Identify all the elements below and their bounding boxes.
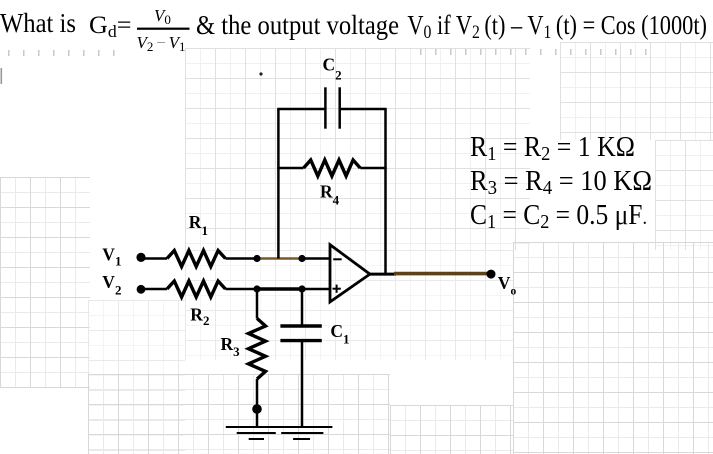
svg-text:R2: R2 (190, 305, 209, 329)
resistor R1 (167, 251, 225, 267)
svg-text:V0: V0 (154, 6, 171, 27)
op-amp U1 triangle (330, 245, 370, 302)
wire node C down to R3 (256, 289, 259, 318)
capacitor C2 left plate (324, 87, 327, 128)
wire node D to op-amp plus input (302, 288, 330, 291)
capacitor C1 bottom plate (280, 339, 321, 342)
svg-text:& the output voltage: & the output voltage (196, 10, 399, 40)
wire node A to node B (brown) (257, 257, 302, 260)
svg-text:C2: C2 (323, 55, 342, 83)
wire R2 to node C (225, 288, 257, 291)
svg-text:Vo: Vo (498, 273, 517, 298)
node D dot (298, 285, 305, 292)
svg-text:R1 = R2 = 1 KΩ: R1 = R2 = 1 KΩ (470, 132, 635, 165)
ground bar 3 left (249, 438, 264, 440)
ground bar 3 right (293, 438, 310, 440)
wire output to Vo terminal (brown) (394, 272, 491, 276)
svg-text:What is: What is (0, 8, 76, 38)
wire op-amp output (370, 273, 396, 276)
op-amp minus sign (333, 258, 342, 260)
capacitor C2 right plate (338, 87, 341, 128)
feedback left vertical wire (277, 109, 280, 259)
feedback right vertical wire (384, 109, 387, 274)
wire V2 input to R2 (141, 288, 167, 291)
op-amp plus sign (333, 288, 341, 290)
ground top bar (226, 426, 333, 428)
svg-text:R4: R4 (320, 181, 340, 207)
wire R3 to ground node (256, 379, 259, 427)
Vo terminal dot (487, 270, 496, 279)
resistor R3 (249, 318, 266, 379)
wire R4 branch right (360, 167, 387, 170)
resistor R2 (167, 281, 225, 297)
wire C2 to top branch right (340, 108, 387, 111)
svg-text:V1: V1 (102, 245, 121, 269)
svg-text:R1: R1 (189, 212, 208, 238)
terminal V2 dot (137, 285, 146, 294)
wire R1 to node A (225, 257, 257, 260)
wire R4 branch left (277, 167, 303, 170)
R3 ground node dot (252, 404, 262, 414)
wire C1 to ground (301, 341, 304, 427)
node A dot (253, 255, 260, 262)
wire top branch left to C2 (277, 108, 325, 111)
wire V1 input to R1 (141, 257, 167, 260)
node B dot (298, 255, 305, 262)
stray mark left edge (1, 68, 3, 84)
ground bar 2 right (281, 432, 323, 434)
svg-text:V2: V2 (102, 272, 121, 298)
svg-text:V2 − V1: V2 − V1 (137, 33, 186, 54)
stray mark dot (259, 72, 262, 75)
background grid patches (185, 48, 530, 250)
fraction bar (137, 28, 190, 30)
wire node D down to C1 (301, 289, 304, 326)
svg-text:R3 = R4 = 10 KΩ: R3 = R4 = 10 KΩ (470, 166, 652, 199)
svg-text:C1: C1 (330, 321, 349, 347)
ground bar 2 left (237, 432, 276, 434)
node C dot (253, 285, 260, 292)
wire node B to op-amp minus input (302, 257, 330, 260)
resistor R4 (304, 160, 361, 176)
svg-text:Gd=: Gd= (89, 12, 132, 41)
wire node C to node D (257, 287, 302, 291)
terminal V1 dot (136, 253, 145, 262)
svg-text:V0 if V2 (t) – V1 (t) = Cos (1: V0 if V2 (t) – V1 (t) = Cos (1000t) (407, 10, 707, 43)
svg-text:C1 = C2 = 0.5 μF.: C1 = C2 = 0.5 μF. (470, 200, 647, 233)
capacitor C1 top plate (280, 324, 321, 327)
svg-text:R3: R3 (221, 334, 241, 359)
